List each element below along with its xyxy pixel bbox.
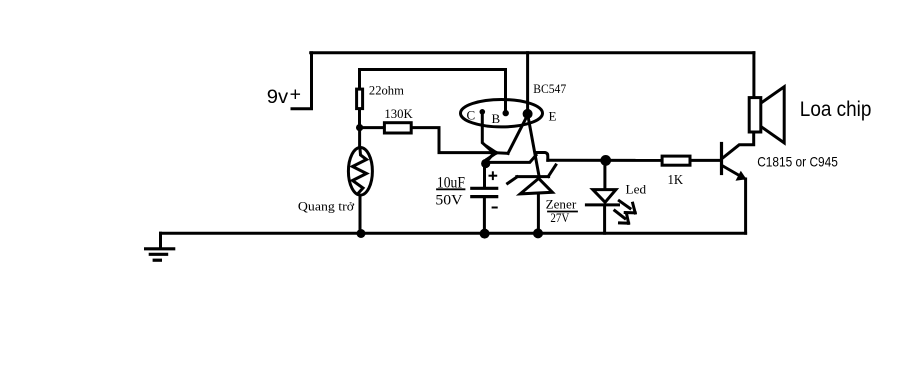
node junction dot LED top (600, 155, 611, 166)
svg-text:1K: 1K (668, 173, 684, 188)
photoresistor LDR Quang tro (348, 128, 372, 234)
node junction dot A (R1/R2/LDR) (356, 124, 363, 131)
LED D2 (586, 160, 618, 233)
arrowhead on base wire (487, 147, 508, 160)
pin C dot (480, 109, 486, 115)
wire second rail from R1 top to base pin B (360, 70, 506, 113)
node junction dot cap-ground rail (480, 229, 490, 239)
svg-text:130K: 130K (384, 106, 413, 121)
LED light arrows (615, 201, 635, 223)
svg-text:B: B (492, 111, 501, 126)
svg-text:C1815 or C945: C1815 or C945 (757, 153, 838, 169)
wire mid rail right segment (548, 159, 662, 162)
wire 9v+ feed (292, 53, 312, 109)
resistor R1 22ohm (357, 70, 363, 128)
svg-text:50V: 50V (435, 193, 462, 209)
wire mid rail left segment (486, 155, 536, 162)
svg-text:BC547: BC547 (533, 81, 566, 96)
wire hook jog (536, 153, 548, 161)
svg-text:+: + (290, 84, 301, 106)
wire collector lead down from C dot (482, 113, 493, 153)
svg-text:27V: 27V (550, 211, 569, 225)
resistor R3 1K (662, 156, 720, 165)
pin E dot (523, 109, 533, 119)
resistor R2 130K (363, 123, 493, 153)
zener diode D1 (508, 165, 556, 233)
wire emitter diagonal 1 from E dot (508, 115, 528, 153)
svg-text:Led: Led (626, 182, 647, 197)
wire bottom ground rail (161, 232, 746, 235)
transistor U1 BC547 package ellipse (461, 100, 543, 127)
ground (146, 233, 174, 260)
wire top supply rail (311, 51, 754, 54)
capacitor C1 10uF (472, 164, 497, 234)
pin B dot (503, 110, 509, 116)
speaker Loa chip (749, 53, 784, 143)
svg-text:Loa chip: Loa chip (800, 98, 872, 121)
svg-text:22ohm: 22ohm (369, 83, 404, 98)
wire drop from top rail to E pin (526, 53, 529, 110)
svg-text:E: E (549, 109, 557, 124)
svg-text:C: C (467, 107, 476, 122)
transistor Q1 C1815 (722, 134, 754, 234)
wire short diagonal into junction (486, 154, 493, 163)
svg-text:9v: 9v (267, 86, 289, 108)
node junction dot zener-ground rail (533, 228, 543, 238)
svg-text:Zener: Zener (546, 197, 577, 212)
node junction dot B (cap top node) (481, 159, 490, 168)
node junction dot LDR-ground rail (357, 229, 366, 238)
svg-text:Quang trở: Quang trở (298, 198, 355, 213)
wire emitter diagonal 2 from E dot to zener (528, 114, 539, 176)
